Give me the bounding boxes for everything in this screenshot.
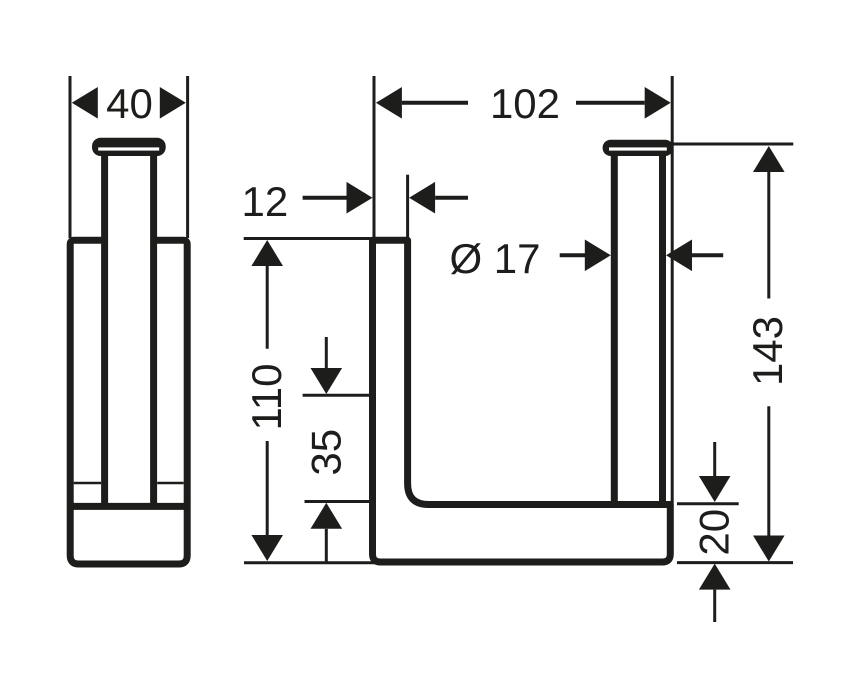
arrowhead left of dim 40 xyxy=(72,87,98,119)
dim 20 lower leader line xyxy=(713,590,716,622)
arrowhead right of dim 40 xyxy=(160,87,186,119)
pin right outline, front view xyxy=(659,152,666,505)
extension line right of dim 102 / pin edge xyxy=(671,76,674,505)
arrowhead dim 12 pointing left xyxy=(409,182,435,214)
arrowhead bottom of dim 35 pointing up xyxy=(311,503,343,529)
dim 110 line lower segment xyxy=(266,441,269,535)
dim 17 leader line left xyxy=(560,253,586,257)
svg-text:102: 102 xyxy=(490,80,560,127)
cap of pin, side view xyxy=(92,138,166,156)
svg-text:35: 35 xyxy=(303,429,350,476)
svg-text:110: 110 xyxy=(243,364,290,431)
extension line top of dim 110 xyxy=(244,237,372,240)
body outer profile, side view xyxy=(70,240,187,564)
svg-text:143: 143 xyxy=(744,316,791,386)
dim 35 upper leader line xyxy=(325,337,328,370)
pin left outline, front view xyxy=(611,152,618,505)
arrowhead left of dim 102 xyxy=(376,87,402,119)
dim 35 lower leader line xyxy=(325,529,328,563)
arrowhead bottom of dim 20 pointing up xyxy=(699,564,731,590)
svg-text:40: 40 xyxy=(106,80,153,127)
arrowhead bottom of dim 143 pointing down xyxy=(753,536,785,562)
extension line right of dim 40 xyxy=(186,76,189,238)
arrowhead top of dim 110 pointing up xyxy=(251,240,283,266)
inner edge line, side view xyxy=(74,482,184,485)
arrowhead top of dim 35 pointing down xyxy=(311,368,343,394)
dim 17 right tail line xyxy=(692,253,723,257)
arrowhead dim 12 pointing right xyxy=(347,182,373,214)
dim 110 line upper segment xyxy=(266,266,269,349)
svg-text:20: 20 xyxy=(691,509,738,556)
arrowhead dim 17 pointing right xyxy=(585,240,611,272)
dim 12 leader line xyxy=(303,196,348,200)
extension line top of dim 20 xyxy=(677,502,739,505)
extension line right of dim 12 xyxy=(406,175,409,238)
extension line top of dim 143 xyxy=(670,143,793,146)
pin right outline, side view xyxy=(150,152,157,506)
dim 102 line left segment xyxy=(402,101,468,105)
dim 143 line upper segment xyxy=(767,172,770,299)
dim 12 right tail line xyxy=(435,196,468,200)
base plate top edge, side view xyxy=(70,503,187,510)
slot in cap, front view xyxy=(609,147,667,150)
arrowhead bottom of dim 110 pointing down xyxy=(251,535,283,561)
slot in cap, side view xyxy=(98,147,159,150)
arrowhead top of dim 143 pointing up xyxy=(753,146,785,172)
bracket outline, front view xyxy=(373,240,671,562)
extension line bottom of dim 20 xyxy=(677,561,793,564)
cap of pin, front view xyxy=(603,140,674,156)
extension line top of dim 35 xyxy=(303,394,372,397)
extension line left of dim 102 xyxy=(373,76,376,238)
arrowhead dim 17 pointing left xyxy=(666,240,692,272)
pin left outline, side view xyxy=(101,152,108,506)
extension line bottom of dim 35 xyxy=(305,500,370,503)
dim 20 upper leader line xyxy=(713,442,716,477)
dim 102 line right segment xyxy=(576,101,645,105)
extension line bottom left xyxy=(244,561,379,564)
extension line left of dim 40 xyxy=(69,76,72,238)
dim 143 line lower segment xyxy=(767,406,770,537)
arrowhead right of dim 102 xyxy=(645,87,671,119)
svg-text:12: 12 xyxy=(242,178,289,225)
svg-text:Ø 17: Ø 17 xyxy=(449,235,540,282)
arrowhead top of dim 20 pointing down xyxy=(699,476,731,502)
